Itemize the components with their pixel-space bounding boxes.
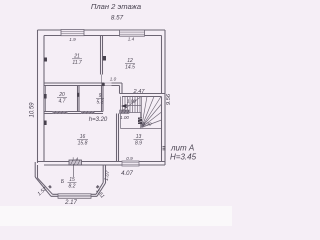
svg-text:14.5: 14.5 xyxy=(125,65,135,71)
bay label Б 15/8.2 with leader xyxy=(73,164,75,177)
bottom wall main xyxy=(38,162,166,166)
window bay top (room16 to bay) xyxy=(69,160,82,165)
svg-text:1.00: 1.00 xyxy=(127,99,136,104)
svg-text:1.4: 1.4 xyxy=(128,37,135,42)
stair winders fan xyxy=(142,97,162,128)
middle wall door lighten xyxy=(104,82,112,85)
svg-text:2.47: 2.47 xyxy=(133,89,146,95)
stair flight break diagonal xyxy=(121,97,141,112)
svg-text:8.57: 8.57 xyxy=(111,15,124,22)
top rooms divider xyxy=(101,35,103,75)
wall between room 16 and room 18 xyxy=(117,114,119,162)
room 18 label 13/8.9 xyxy=(135,134,142,147)
corridor door hatched xyxy=(120,110,130,114)
jamb tick left chamfer xyxy=(48,185,52,189)
svg-text:1.9: 1.9 xyxy=(69,37,76,42)
window bay bottom xyxy=(58,194,91,199)
svg-text:0.90: 0.90 xyxy=(143,122,152,127)
room 22 label 12/14.5 xyxy=(125,58,135,71)
svg-text:2.17: 2.17 xyxy=(64,200,77,206)
svg-text:h=3.20: h=3.20 xyxy=(89,117,108,123)
flue tick left wall room21 xyxy=(44,58,47,62)
bay right chamfer xyxy=(96,183,106,197)
room 19 label 9/5.3 xyxy=(97,93,104,106)
room 19 right wall xyxy=(102,86,104,112)
svg-text:15.8: 15.8 xyxy=(78,141,88,147)
vent tick right wall xyxy=(163,147,166,150)
divider door thin line xyxy=(101,75,103,84)
flue tick left wall room16 xyxy=(44,121,47,126)
top wall xyxy=(38,30,166,36)
flue tick top divider xyxy=(103,56,106,61)
jamb tick right chamfer xyxy=(96,185,100,189)
room 20 label 20/4.7 xyxy=(58,92,65,105)
svg-text:1.0: 1.0 xyxy=(110,77,117,82)
room 16 label 16/15.8 xyxy=(78,134,88,147)
room 21 label 21/11.7 xyxy=(72,54,82,67)
stair walk arrow xyxy=(121,104,127,108)
svg-text:11.7: 11.7 xyxy=(72,60,82,66)
svg-text:8.9: 8.9 xyxy=(135,141,142,147)
room 20 inner line xyxy=(45,86,47,112)
tick middle wall T-junction xyxy=(102,83,105,86)
svg-text:План 2 этажа: План 2 этажа xyxy=(91,2,141,11)
svg-text:8.2: 8.2 xyxy=(69,184,76,190)
tick rooms divider 20/19 xyxy=(77,93,80,97)
stair treads xyxy=(121,97,162,129)
door hatch in rooms bottom wall (room 19) xyxy=(81,111,95,114)
paper background xyxy=(0,0,232,226)
svg-text:лит А: лит А xyxy=(170,144,194,153)
svg-text:4.07: 4.07 xyxy=(121,171,133,177)
svg-text:1.00: 1.00 xyxy=(120,115,129,120)
svg-text:9.56: 9.56 xyxy=(166,93,172,105)
stair top wall xyxy=(120,94,166,97)
stair bottom edge xyxy=(121,128,162,130)
left wall xyxy=(38,30,45,163)
middle wall corner down xyxy=(120,83,123,94)
right wall xyxy=(162,30,166,165)
door hatch in rooms bottom wall (room 20) xyxy=(53,111,68,114)
svg-text:5.3: 5.3 xyxy=(97,100,104,106)
flue tick left wall room20 xyxy=(44,94,47,99)
svg-text:0.9: 0.9 xyxy=(126,156,133,161)
svg-text:1.4: 1.4 xyxy=(72,156,79,161)
rooms 20/19 divider xyxy=(78,86,80,112)
stair walking line xyxy=(124,105,141,107)
svg-text:10.59: 10.59 xyxy=(30,102,36,118)
stair lower door dark blob xyxy=(138,118,142,125)
bottom white band xyxy=(0,206,232,226)
bay right wall xyxy=(103,165,105,183)
middle wall horizontal xyxy=(44,83,122,86)
svg-text:Н=3.45: Н=3.45 xyxy=(170,153,197,162)
window top-left xyxy=(61,30,84,36)
window bottom wall right xyxy=(122,161,139,166)
stair left edge xyxy=(120,97,122,129)
bay left chamfer xyxy=(35,177,52,196)
rooms 20/19 bottom wall xyxy=(44,112,103,114)
stair winder partition xyxy=(140,113,142,129)
bay bottom wall xyxy=(51,194,97,196)
window top-right xyxy=(120,30,145,36)
svg-text:4.7: 4.7 xyxy=(59,99,66,105)
stair mid landing line xyxy=(121,112,142,114)
bay left wall xyxy=(35,162,37,178)
